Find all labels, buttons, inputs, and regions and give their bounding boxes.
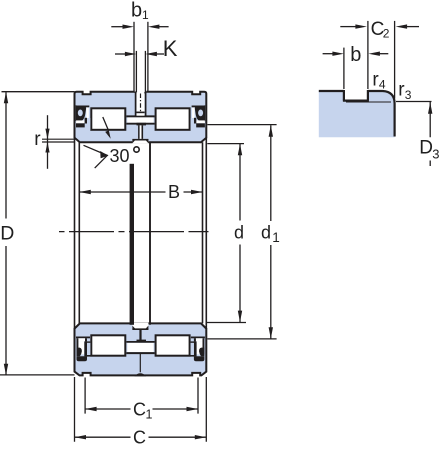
rib centre slot <box>137 113 145 115</box>
dim D3 extension <box>396 101 432 103</box>
dim b1 left extension line <box>133 22 135 91</box>
seal top-right (mirrored) <box>191 105 206 130</box>
right bore corner line <box>202 142 204 323</box>
svg-text:1: 1 <box>146 408 153 422</box>
svg-text:b: b <box>131 0 142 22</box>
dim D top extension <box>2 91 75 93</box>
hole centreline <box>140 94 142 113</box>
dim C1 line <box>85 408 198 410</box>
dim D top arrowhead <box>4 92 8 104</box>
roller pocket right (top row) <box>156 108 190 130</box>
dim b1 left arrow <box>111 26 123 28</box>
dim d extensions <box>207 143 244 145</box>
lubrication hole counterbore at OD <box>135 90 146 94</box>
dim C1 arrowheads <box>85 407 97 411</box>
dim K left extension line <box>135 51 137 92</box>
dim r lower tick line (bore extension) <box>42 141 75 143</box>
lubrication hole channel <box>137 93 145 112</box>
dim b extension (groove left wall up) <box>343 48 345 89</box>
inner ring split left line <box>138 125 140 142</box>
face extension lines below <box>75 377 207 442</box>
svg-text:D: D <box>419 138 433 159</box>
dim B left arrowhead <box>79 190 91 194</box>
groove left wall <box>343 90 345 101</box>
roller pocket right (bottom row) <box>156 335 190 355</box>
dim r upper arrowhead <box>45 129 49 140</box>
recess depth thin line <box>346 101 391 103</box>
dim D bottom arrowhead <box>4 364 8 376</box>
dim K right arrow <box>156 53 164 55</box>
roller pocket left (top row) <box>91 108 125 130</box>
dim D line <box>5 92 7 375</box>
dim C2 left extension (groove right wall up) <box>367 21 369 89</box>
dim d1 extensions <box>207 124 276 126</box>
svg-text:d: d <box>261 223 271 243</box>
raceway leader line in left pocket <box>103 117 108 130</box>
svg-text:3: 3 <box>405 88 412 102</box>
inner ring split right line <box>142 125 144 142</box>
inner ring split gap <box>140 125 142 142</box>
top edge right segment + r4 corner <box>368 91 395 137</box>
dim D bottom extension <box>0 374 75 376</box>
dim C1 extension lines <box>85 378 198 414</box>
oil hole counterbore bump (bottom) <box>134 373 146 376</box>
svg-text:1: 1 <box>272 230 280 245</box>
svg-text:3: 3 <box>432 146 439 161</box>
groove bottom <box>343 99 369 101</box>
svg-text:b: b <box>350 44 361 66</box>
raceway leader arrowhead <box>105 130 111 139</box>
svg-text:d: d <box>234 223 244 243</box>
oil hole thin line (bottom band) <box>139 354 141 373</box>
split stem (bottom) <box>139 329 141 342</box>
groove right wall <box>367 90 369 101</box>
dim K right extension line <box>144 51 146 92</box>
axis centreline <box>59 231 209 233</box>
svg-text:r: r <box>34 129 41 150</box>
svg-text:K: K <box>163 36 178 61</box>
svg-text:C: C <box>133 428 146 448</box>
inner ring centre shoulders top line <box>126 123 154 125</box>
dim C2 right arrow <box>406 26 419 28</box>
roller pocket left (bottom row) <box>91 335 125 355</box>
outer+inner ring top half silhouette <box>75 92 207 143</box>
see-through gap between rib and shoulders <box>127 117 153 122</box>
svg-text:D: D <box>0 222 14 244</box>
dim r line <box>47 115 49 169</box>
outer+inner ring bottom half silhouette <box>75 323 207 375</box>
outer ring centre rib tip line <box>126 115 154 117</box>
svg-text:30: 30 <box>110 146 130 166</box>
dim K left arrow <box>115 53 126 55</box>
dim C arrowheads <box>75 435 87 439</box>
seal top-left <box>76 105 91 130</box>
dim D3 arrowhead <box>428 102 432 114</box>
shoulders centre gap <box>137 123 147 126</box>
dim b left arrow <box>323 53 333 55</box>
svg-text:4: 4 <box>379 77 386 91</box>
right face silhouette line <box>205 138 207 329</box>
dim b right arrow <box>379 53 388 55</box>
svg-text:2: 2 <box>383 26 390 40</box>
dim C2 left arrow <box>340 26 356 28</box>
dim B right arrowhead <box>191 190 203 194</box>
outer ring detail block <box>319 91 395 137</box>
bore groove left edge thick line <box>130 164 134 325</box>
bore lubrication groove (bottom) <box>132 323 148 330</box>
seal bottom-left <box>76 337 91 361</box>
dim b1 right arrow <box>158 26 168 28</box>
shoulders centre gap <box>137 340 147 343</box>
bore groove right edge line <box>149 143 151 325</box>
dim r upper tick line <box>42 138 74 140</box>
svg-text:C: C <box>133 400 146 420</box>
dim D3 line <box>429 102 431 166</box>
dim d line <box>239 144 241 322</box>
bore lubrication groove <box>132 139 148 144</box>
30 deg chamfer leader <box>84 145 108 168</box>
dim C line <box>75 436 207 438</box>
dim d arrowheads <box>238 144 242 156</box>
dim d1 line <box>270 125 272 339</box>
dim B line <box>79 191 202 193</box>
left face silhouette line <box>74 138 76 329</box>
centre shoulders bottom line <box>126 341 154 343</box>
seal bottom-right (mirrored) <box>190 337 205 361</box>
svg-text:1: 1 <box>142 8 149 22</box>
outer ring rib top line (bottom) <box>126 352 154 354</box>
see-through gap between shoulders and rib (bottom) <box>127 343 153 352</box>
left bore corner line <box>78 142 80 323</box>
dim C2 right extension <box>394 21 396 99</box>
dim d1 arrowheads <box>269 125 273 137</box>
dim b1 right extension line <box>147 22 149 91</box>
detail block top edge <box>319 90 344 92</box>
dim r lower arrowhead <box>45 142 49 153</box>
svg-text:B: B <box>168 182 180 202</box>
